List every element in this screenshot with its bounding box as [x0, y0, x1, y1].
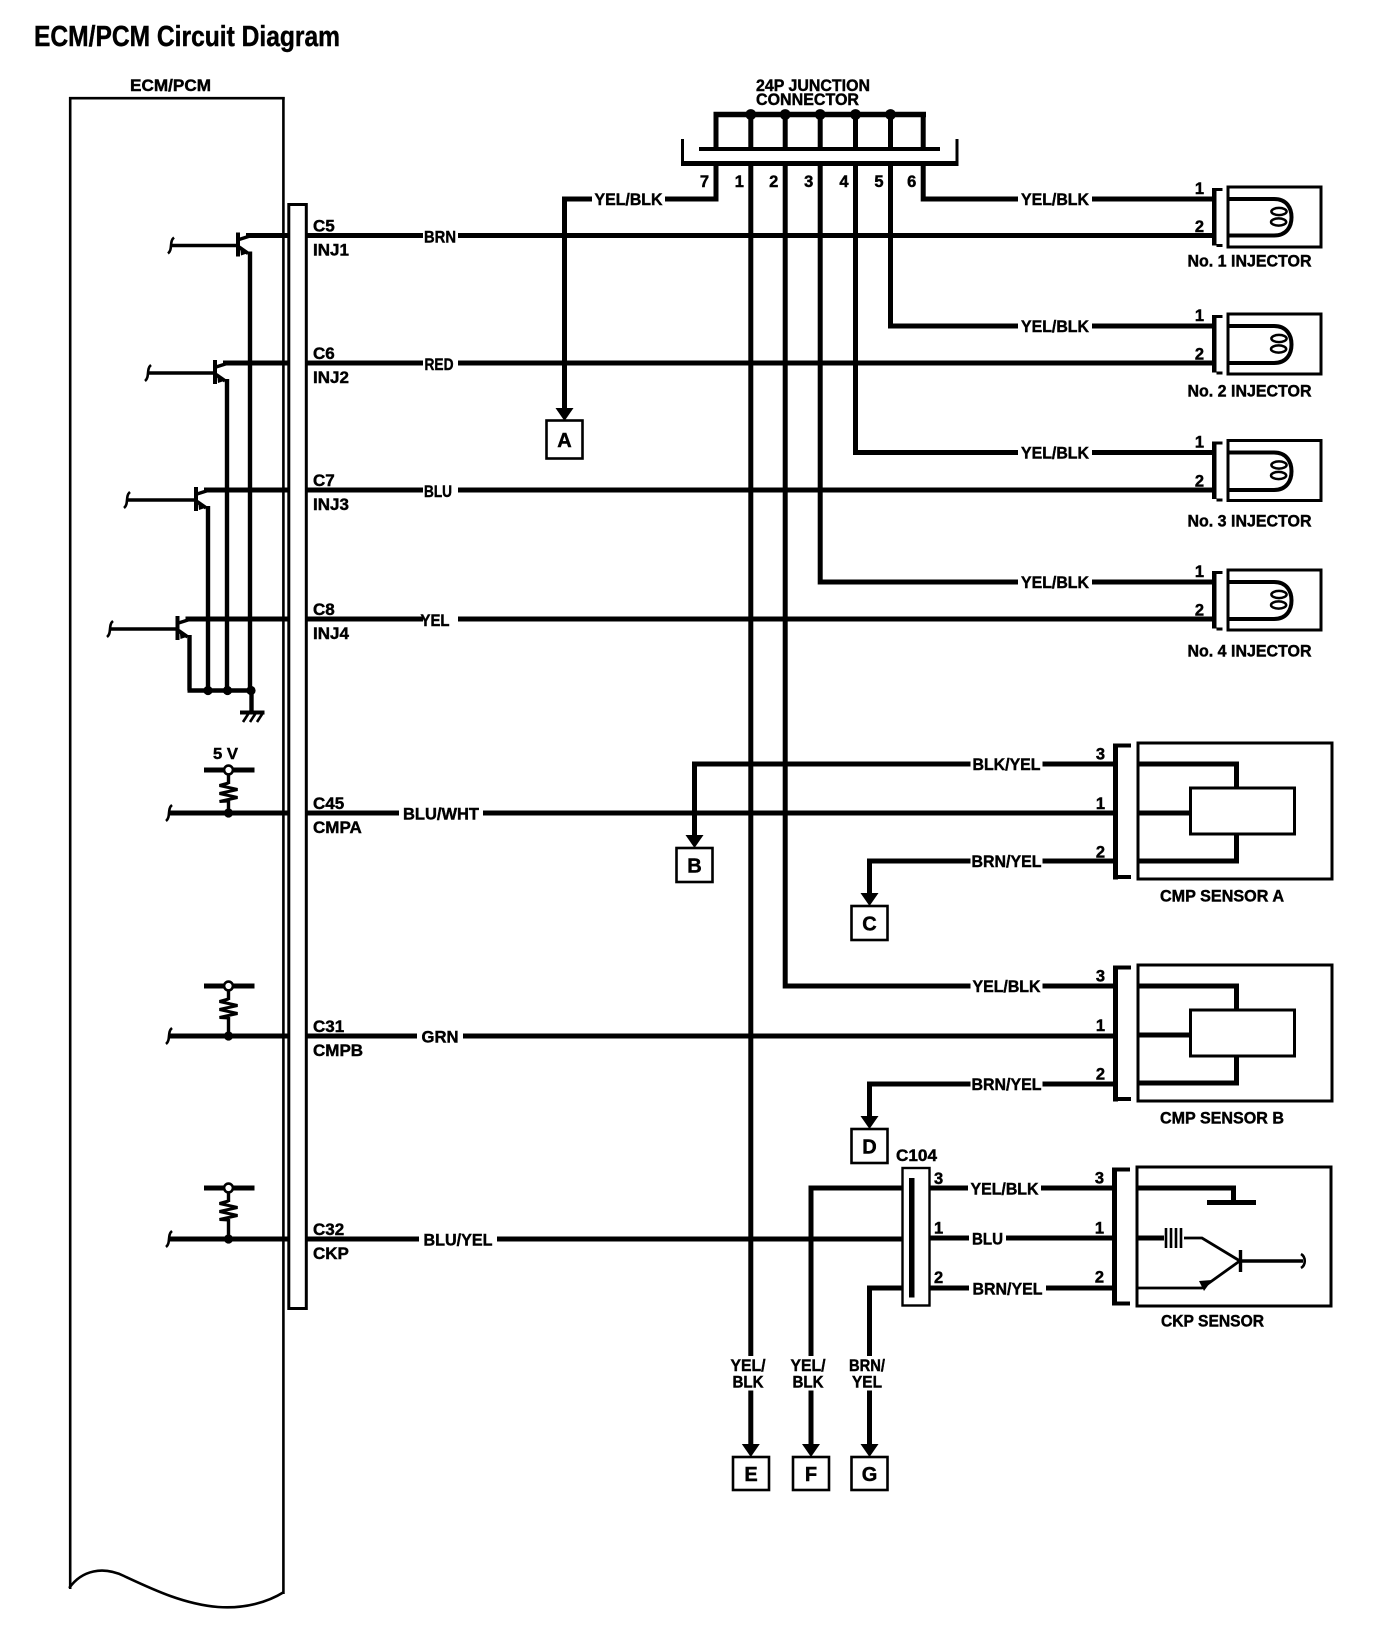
- svg-text:ECM/PCM: ECM/PCM: [130, 76, 211, 95]
- svg-text:CMP SENSOR B: CMP SENSOR B: [1160, 1109, 1284, 1128]
- svg-text:C6: C6: [313, 344, 335, 363]
- emitter common rail wire: [188, 688, 254, 692]
- svg-text:YEL: YEL: [852, 1373, 882, 1392]
- wire CMPA input (C45): [166, 805, 290, 821]
- svg-text:YEL/BLK: YEL/BLK: [971, 1180, 1040, 1199]
- node G: [852, 1457, 888, 1490]
- svg-text:1: 1: [1096, 1017, 1105, 1035]
- junction dot rail-Q1: [246, 686, 255, 695]
- svg-text:CONNECTOR: CONNECTOR: [756, 90, 859, 109]
- svg-text:INJ1: INJ1: [313, 241, 349, 260]
- svg-text:BRN: BRN: [424, 228, 456, 247]
- svg-text:YEL/BLK: YEL/BLK: [1021, 190, 1090, 209]
- wire C104 pin3 to CKP pin3 (YEL/BLK): [930, 1186, 969, 1191]
- svg-text:6: 6: [907, 173, 916, 191]
- svg-text:YEL/BLK: YEL/BLK: [1021, 444, 1090, 463]
- svg-text:YEL/BLK: YEL/BLK: [1021, 317, 1090, 336]
- svg-text:BLK: BLK: [733, 1373, 765, 1392]
- wire node G lower segment: [867, 1391, 872, 1446]
- wire C104 pin1 to CKP pin1 (BLU): [930, 1236, 970, 1241]
- node D: [852, 1129, 888, 1163]
- wire pin7 to node A (YEL/BLK): [665, 164, 716, 200]
- CMP sensor B: [1096, 965, 1332, 1128]
- wire CKP input (C32): [166, 1231, 290, 1247]
- ECM/PCM box right edge: [282, 97, 285, 1594]
- svg-text:BRN/YEL: BRN/YEL: [972, 852, 1042, 871]
- wire C8 YEL to No.4 injector: [306, 617, 423, 622]
- node A arrow: [556, 408, 574, 421]
- wire Q2 collector to C6 pin: [223, 361, 290, 366]
- CKP sensor: [1095, 1167, 1331, 1331]
- svg-text:1: 1: [1195, 434, 1204, 452]
- svg-text:3: 3: [1096, 746, 1105, 764]
- No. 2 injector: [1188, 307, 1322, 401]
- svg-text:C31: C31: [313, 1017, 344, 1036]
- svg-text:RED: RED: [425, 355, 454, 374]
- wire pin4 to No.3 injector (YEL/BLK): [856, 164, 1019, 453]
- svg-text:2: 2: [769, 173, 778, 191]
- node G arrow: [861, 1444, 879, 1457]
- transistor Q2 (INJ2 driver): [145, 360, 227, 691]
- node A: [547, 421, 583, 459]
- svg-text:2: 2: [1195, 346, 1204, 364]
- resistor R3 (5V pull-up, CKP): [204, 1184, 255, 1244]
- svg-text:2: 2: [1096, 1066, 1105, 1084]
- node E arrow: [742, 1444, 760, 1457]
- svg-text:INJ2: INJ2: [313, 368, 349, 387]
- svg-text:2: 2: [934, 1269, 943, 1287]
- svg-text:2: 2: [1195, 218, 1204, 236]
- 24P junction connector: [681, 76, 959, 191]
- No. 1 injector: [1188, 180, 1322, 271]
- svg-text:BRN/YEL: BRN/YEL: [972, 1075, 1042, 1094]
- wire C32 BLU/YEL to C104: [306, 1237, 419, 1242]
- wire C31 GRN to CMP B: [306, 1034, 417, 1039]
- svg-text:CKP SENSOR: CKP SENSOR: [1161, 1312, 1264, 1331]
- No. 4 injector: [1188, 563, 1322, 661]
- svg-text:3: 3: [804, 173, 813, 191]
- svg-text:G: G: [862, 1464, 878, 1486]
- svg-text:5: 5: [874, 173, 883, 191]
- svg-text:No. 2 INJECTOR: No. 2 INJECTOR: [1188, 382, 1312, 401]
- svg-text:BLK: BLK: [793, 1373, 825, 1392]
- ECM connector bar: [289, 205, 307, 1309]
- svg-text:1: 1: [934, 1220, 943, 1238]
- wire pin6 to No.1 injector (YEL/BLK): [923, 164, 1018, 200]
- svg-text:1: 1: [1195, 180, 1204, 198]
- svg-text:CMP SENSOR A: CMP SENSOR A: [1160, 887, 1284, 906]
- svg-text:C: C: [862, 914, 876, 936]
- svg-text:7: 7: [700, 173, 709, 191]
- svg-text:C5: C5: [313, 217, 335, 236]
- svg-text:No. 3 INJECTOR: No. 3 INJECTOR: [1188, 512, 1312, 531]
- wire C5 BRN to No.1 injector: [306, 233, 423, 238]
- No. 3 injector: [1188, 434, 1322, 531]
- svg-text:BLU: BLU: [972, 1230, 1003, 1249]
- resistor R2 (5V pull-up, CMPB): [204, 982, 255, 1041]
- svg-text:CKP: CKP: [313, 1244, 349, 1263]
- junction dot rail-Q2: [223, 686, 232, 695]
- junction dot rail-Q3: [203, 686, 212, 695]
- svg-text:C7: C7: [313, 471, 335, 490]
- svg-text:D: D: [862, 1137, 876, 1159]
- svg-text:A: A: [557, 430, 571, 452]
- transistor Q3 (INJ3 driver): [124, 487, 208, 691]
- svg-text:BLK/YEL: BLK/YEL: [973, 755, 1041, 774]
- svg-text:1: 1: [735, 173, 744, 191]
- svg-text:B: B: [687, 856, 701, 878]
- ECM/PCM box left edge: [69, 97, 72, 1589]
- svg-text:No. 1 INJECTOR: No. 1 INJECTOR: [1188, 252, 1312, 271]
- svg-text:2: 2: [1095, 1269, 1104, 1287]
- svg-text:BLU/YEL: BLU/YEL: [424, 1231, 493, 1250]
- wire Q4 collector to C8 pin: [186, 617, 291, 622]
- svg-text:4: 4: [839, 173, 849, 191]
- wire BRN/YEL to node D: [870, 1084, 1114, 1117]
- wire C104 pin3 to node F: [811, 1188, 910, 1356]
- svg-text:C8: C8: [313, 600, 335, 619]
- transistor Q1 (INJ1 driver): [168, 233, 250, 691]
- svg-text:INJ4: INJ4: [313, 624, 349, 643]
- node C arrow: [861, 893, 879, 906]
- svg-text:BRN/YEL: BRN/YEL: [973, 1280, 1043, 1299]
- svg-text:1: 1: [1195, 307, 1204, 325]
- svg-text:No. 4 INJECTOR: No. 4 INJECTOR: [1188, 642, 1312, 661]
- svg-text:1: 1: [1195, 563, 1204, 581]
- svg-text:YEL: YEL: [421, 611, 450, 630]
- svg-text:C45: C45: [313, 794, 344, 813]
- svg-text:BLU: BLU: [424, 482, 452, 501]
- svg-text:2: 2: [1195, 602, 1204, 620]
- node E: [733, 1457, 769, 1490]
- svg-text:ECM/PCM Circuit Diagram: ECM/PCM Circuit Diagram: [34, 21, 340, 53]
- svg-text:3: 3: [1096, 968, 1105, 986]
- svg-text:E: E: [744, 1464, 757, 1486]
- node D arrow: [861, 1116, 879, 1129]
- ECM/PCM box torn bottom edge: [69, 1571, 284, 1608]
- svg-text:YEL/BLK: YEL/BLK: [973, 977, 1042, 996]
- svg-text:1: 1: [1096, 795, 1105, 813]
- CMP sensor A: [1096, 743, 1332, 906]
- svg-text:CMPA: CMPA: [313, 818, 362, 837]
- node F arrow: [802, 1444, 820, 1457]
- wire C6 RED to No.2 injector: [306, 361, 423, 366]
- svg-text:3: 3: [1095, 1170, 1104, 1188]
- svg-text:YEL/BLK: YEL/BLK: [1021, 573, 1090, 592]
- wire BRN/YEL to node C: [870, 861, 1114, 894]
- svg-text:3: 3: [934, 1170, 943, 1188]
- wire node F lower segment: [809, 1391, 814, 1446]
- svg-text:C104: C104: [896, 1146, 938, 1165]
- wire C45 BLU/WHT to CMP A: [306, 811, 399, 816]
- ECM/PCM box top edge: [69, 97, 285, 100]
- transistor Q4 (INJ4 driver): [107, 616, 190, 691]
- wire Q3 collector to C7 pin: [204, 488, 290, 493]
- svg-text:GRN: GRN: [422, 1028, 459, 1047]
- node C: [852, 906, 888, 940]
- wire pin2 to CMP B pin3 (YEL/BLK): [785, 164, 970, 987]
- wire BLK/YEL to node B: [695, 764, 1114, 836]
- wire node E lower segment: [748, 1391, 753, 1446]
- svg-text:YEL/BLK: YEL/BLK: [595, 190, 664, 209]
- svg-text:INJ3: INJ3: [313, 495, 349, 514]
- ground: [240, 713, 265, 723]
- svg-text:F: F: [805, 1464, 817, 1486]
- svg-text:2: 2: [1096, 844, 1105, 862]
- node B: [677, 848, 713, 882]
- wire pin1 vertical (to node E): [748, 164, 753, 1357]
- ground wire: [249, 691, 253, 712]
- wire pin5 to No.2 injector (YEL/BLK): [891, 164, 1019, 327]
- svg-text:BLU/WHT: BLU/WHT: [403, 805, 480, 824]
- connector C104: [896, 1146, 938, 1306]
- wire C104 pin2 to node G: [870, 1288, 910, 1356]
- svg-text:5 V: 5 V: [213, 746, 238, 763]
- node F: [793, 1457, 829, 1490]
- svg-text:C32: C32: [313, 1220, 344, 1239]
- svg-text:2: 2: [1195, 473, 1204, 491]
- resistor R1 (5V pull-up, CMPA): [204, 746, 255, 818]
- wire Q1 collector to C5 pin: [246, 233, 290, 238]
- wire CMPB input (C31): [166, 1028, 290, 1044]
- svg-text:CMPB: CMPB: [313, 1041, 363, 1060]
- wire C7 BLU to No.3 injector: [306, 488, 423, 493]
- node B arrow: [686, 835, 704, 848]
- wire C104 pin2 to CKP pin2 (BRN/YEL): [930, 1286, 970, 1291]
- wire pin3 to No.4 injector (YEL/BLK): [820, 164, 1018, 583]
- svg-text:1: 1: [1095, 1220, 1104, 1238]
